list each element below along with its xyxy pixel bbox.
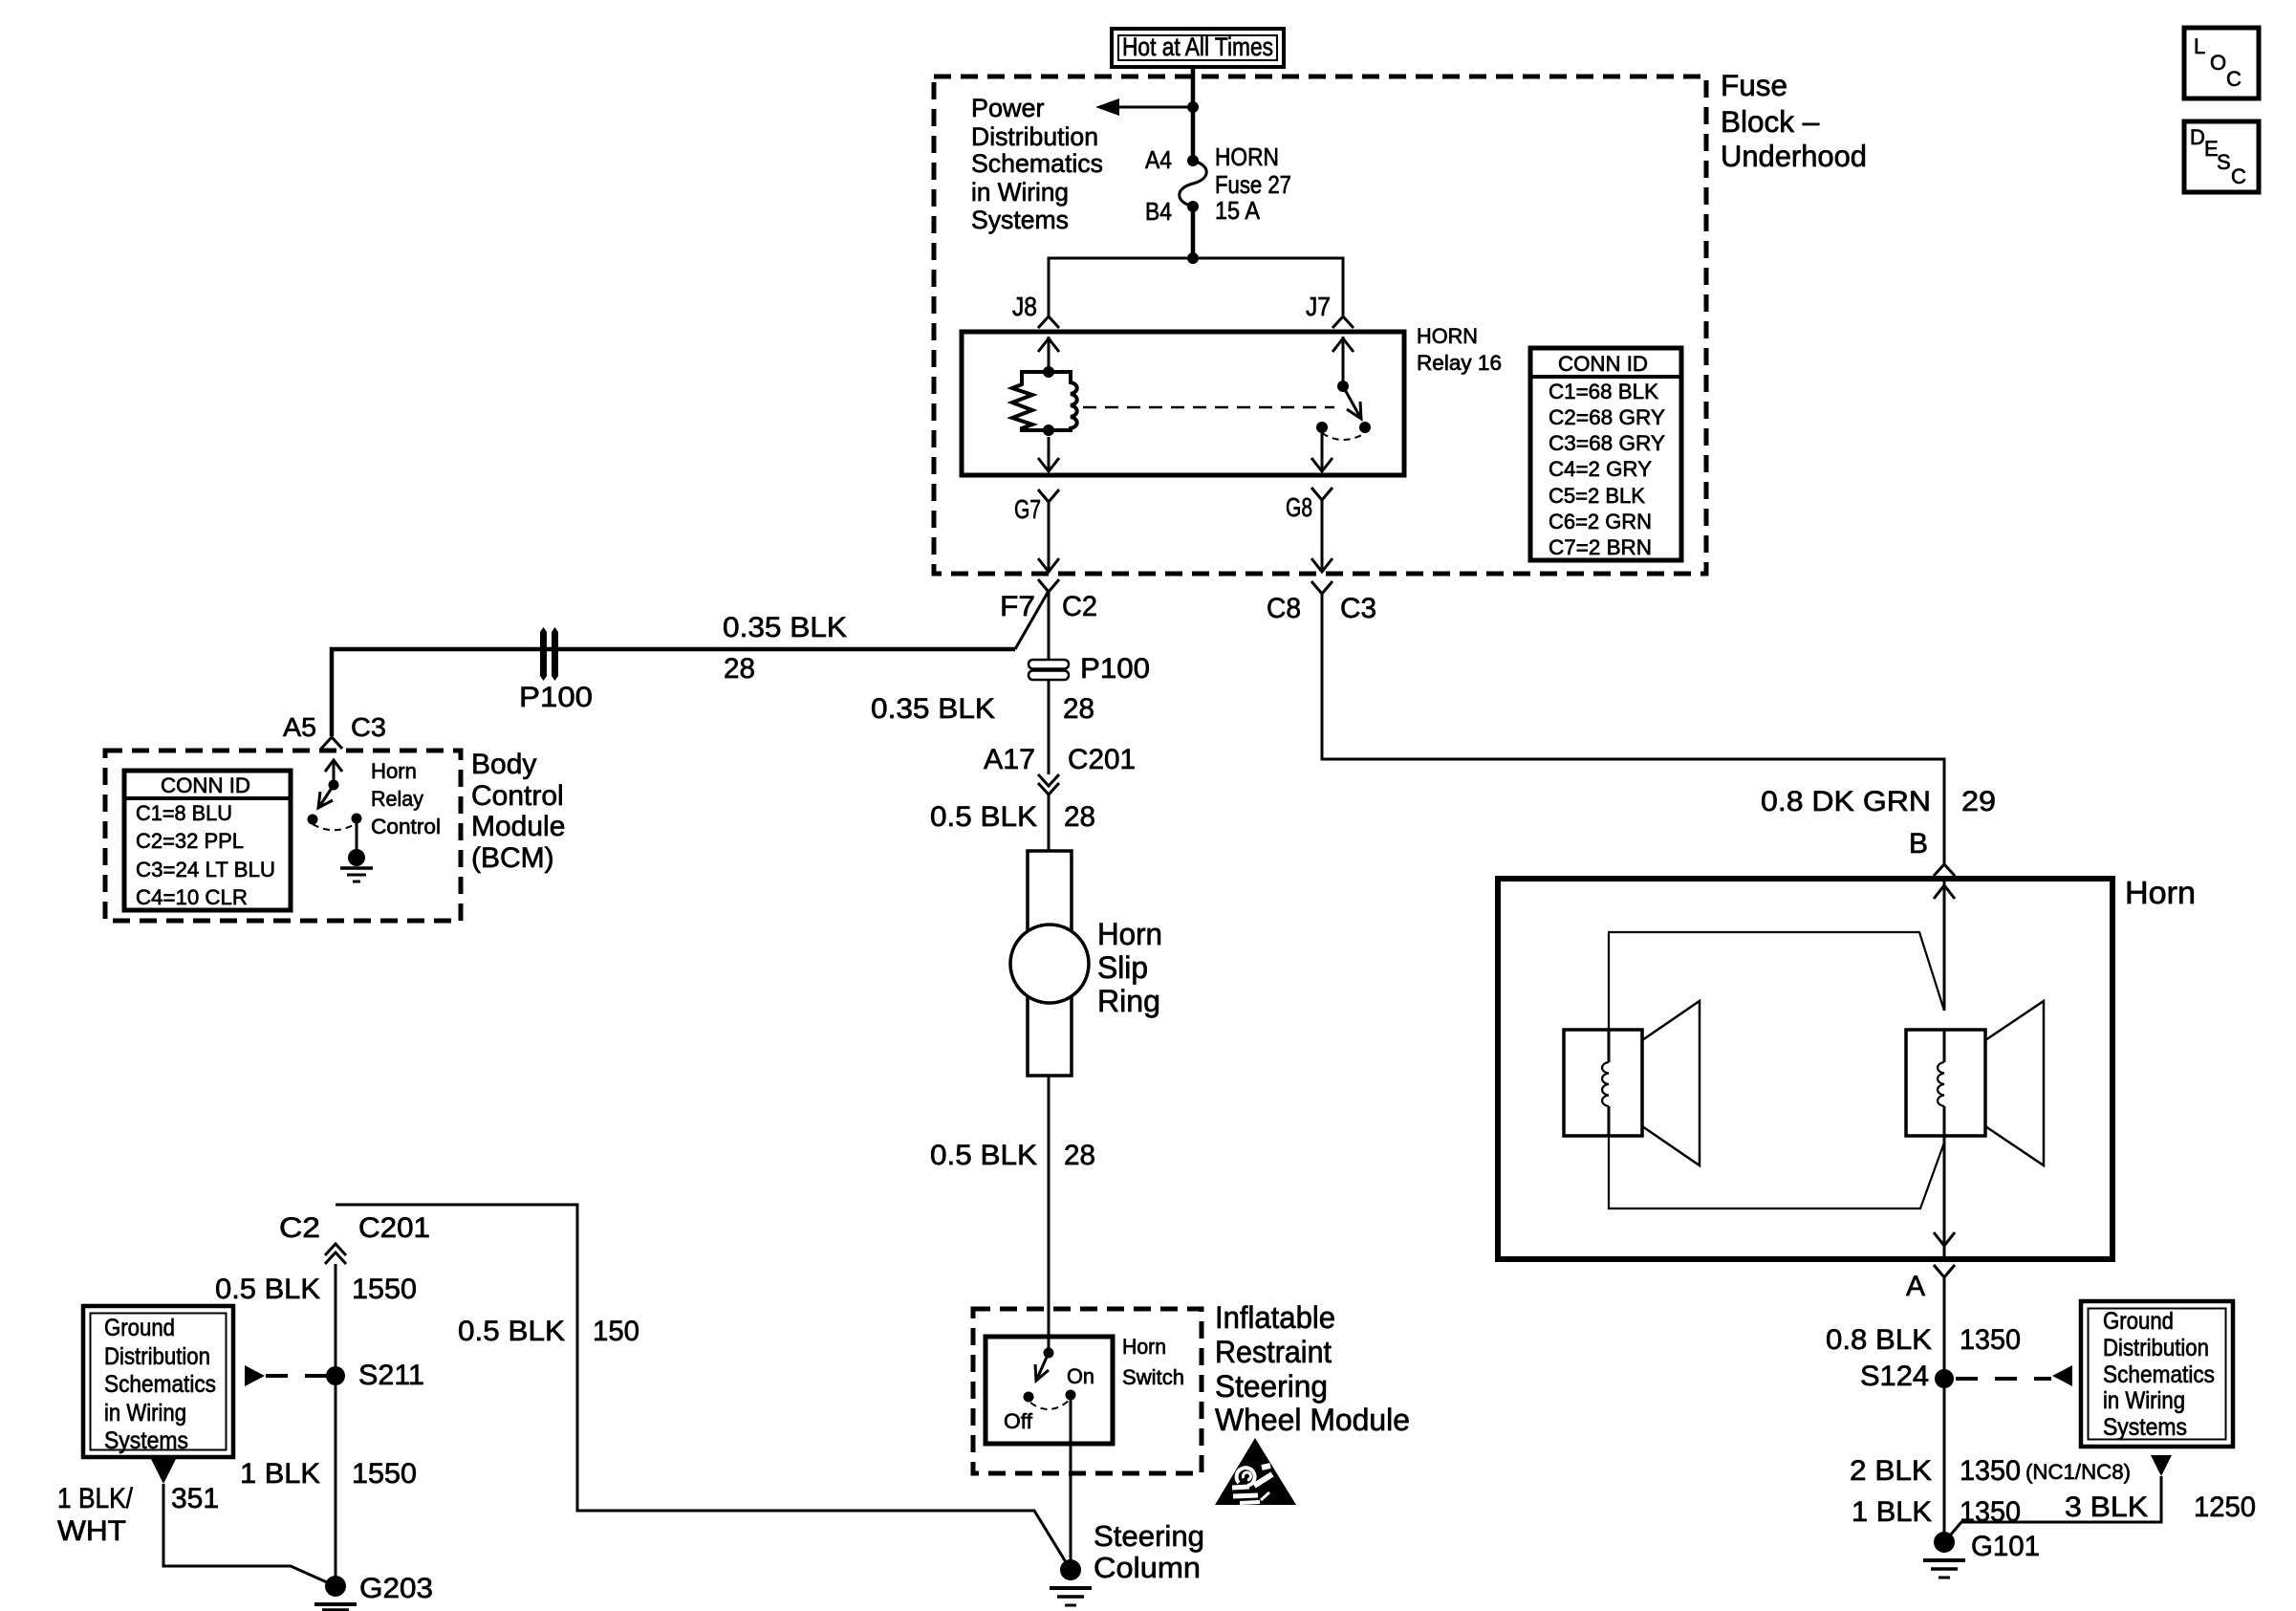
- connector chevrons C2/C201 bottom: [325, 1244, 346, 1264]
- svg-text:C201: C201: [358, 1212, 430, 1244]
- wire C201 to slip ring: [1048, 795, 1051, 851]
- svg-text:Module: Module: [471, 811, 565, 842]
- svg-text:Ground: Ground: [104, 1315, 175, 1341]
- wire 1 BLK/WHT 351 from ground distribution to G203: [150, 1457, 336, 1586]
- dashed reference arrow to S211: [245, 1365, 329, 1386]
- svg-text:Horn: Horn: [371, 759, 417, 783]
- svg-text:HORN: HORN: [1215, 142, 1279, 171]
- svg-text:C3=24 LT BLU: C3=24 LT BLU: [136, 858, 275, 882]
- svg-text:0.5 BLK: 0.5 BLK: [930, 1140, 1037, 1171]
- horn slip ring: [1010, 851, 1089, 1076]
- left horn driver and coil: [1564, 1030, 1642, 1136]
- wire label 0.5 BLK 28 upper: [930, 801, 1095, 833]
- svg-text:Schematics: Schematics: [2103, 1361, 2215, 1388]
- box Ground Distribution Schematics right: [2081, 1301, 2233, 1447]
- box Ground Distribution Schematics left: [83, 1306, 233, 1457]
- relay coil pin J8 arrow: [1038, 337, 1059, 372]
- svg-text:C4=2 GRY: C4=2 GRY: [1549, 457, 1652, 481]
- svg-text:Wheel Module: Wheel Module: [1215, 1403, 1410, 1437]
- label Horn Relay Control: [371, 759, 441, 838]
- ground steering column: [1050, 1559, 1092, 1605]
- svg-text:Horn: Horn: [1097, 917, 1162, 951]
- relay control dashed line: [1083, 406, 1334, 409]
- connector chevron C8/C3: [1311, 581, 1332, 594]
- svg-text:1 BLK: 1 BLK: [1852, 1496, 1932, 1528]
- svg-text:Steering: Steering: [1215, 1369, 1328, 1404]
- svg-text:Power: Power: [971, 94, 1045, 122]
- svg-text:Steering: Steering: [1094, 1519, 1204, 1553]
- svg-text:A4: A4: [1145, 145, 1172, 174]
- wire label 0.5 BLK 28 lower: [930, 1140, 1095, 1171]
- svg-text:Slip: Slip: [1097, 950, 1148, 985]
- svg-text:0.5 BLK: 0.5 BLK: [215, 1274, 320, 1305]
- label Horn Switch: [1122, 1335, 1184, 1389]
- svg-text:(NC1/NC8): (NC1/NC8): [2025, 1460, 2131, 1484]
- svg-text:Distribution: Distribution: [104, 1343, 210, 1370]
- wire BCM horizontal run: [332, 649, 1015, 736]
- wire label 0.35 BLK 28 center: [871, 693, 1094, 725]
- table CONN ID fuse block: [1530, 348, 1681, 560]
- svg-text:Control: Control: [471, 780, 564, 812]
- relay K1 HORN Relay 16 box: [962, 332, 1404, 475]
- wire label 1 BLK 1350: [1852, 1496, 2021, 1528]
- svg-text:J8: J8: [1012, 292, 1037, 321]
- svg-text:Horn: Horn: [2125, 875, 2196, 910]
- svg-text:1 BLK: 1 BLK: [240, 1458, 320, 1490]
- wire branch to power distribution schematics: [1095, 98, 1199, 116]
- connector chevron A5/C3: [321, 737, 342, 749]
- horn feed arrow: [1934, 882, 1955, 1011]
- splice S124: [1860, 1361, 1954, 1392]
- svg-text:S211: S211: [358, 1360, 424, 1391]
- connector P100 inline left: [540, 627, 558, 681]
- connector chevron F7/C2: [1038, 579, 1059, 592]
- svg-text:28: 28: [1064, 801, 1095, 833]
- svg-text:B4: B4: [1145, 197, 1172, 226]
- svg-text:Control: Control: [371, 815, 441, 838]
- svg-text:0.35 BLK: 0.35 BLK: [871, 693, 995, 725]
- svg-text:Inflatable: Inflatable: [1215, 1300, 1335, 1335]
- table CONN ID BCM: [124, 771, 291, 910]
- svg-text:Systems: Systems: [971, 206, 1069, 234]
- right horn bell: [1985, 1001, 2044, 1165]
- svg-text:150: 150: [593, 1316, 639, 1347]
- svg-text:1350: 1350: [1960, 1455, 2021, 1487]
- label Steering Column: [1094, 1519, 1204, 1584]
- wire slip ring to horn switch: [1048, 1076, 1051, 1353]
- svg-text:in Wiring: in Wiring: [2103, 1387, 2185, 1414]
- svg-text:C2=32 PPL: C2=32 PPL: [136, 829, 244, 853]
- svg-text:Underhood: Underhood: [1721, 139, 1867, 173]
- wire label 2 BLK 1350 NC1/NC8: [1850, 1455, 2131, 1487]
- svg-text:1550: 1550: [352, 1458, 417, 1490]
- DESC reference box: [2184, 121, 2259, 192]
- svg-text:C3: C3: [351, 712, 386, 742]
- svg-text:C2=68 GRY: C2=68 GRY: [1549, 405, 1665, 429]
- label Body Control Module (BCM): [471, 749, 565, 874]
- svg-text:L: L: [2194, 34, 2205, 58]
- svg-text:Horn: Horn: [1122, 1335, 1166, 1359]
- svg-text:Distribution: Distribution: [2103, 1335, 2209, 1361]
- svg-text:Block –: Block –: [1721, 104, 1820, 139]
- label Inflatable Restraint Steering Wheel Module: [1215, 1300, 1410, 1437]
- svg-text:Body: Body: [471, 749, 536, 780]
- svg-text:Restraint: Restraint: [1215, 1335, 1332, 1369]
- wire label 1 BLK 1550: [240, 1458, 417, 1490]
- svg-text:Schematics: Schematics: [104, 1371, 216, 1398]
- svg-text:C2: C2: [1062, 591, 1097, 622]
- svg-text:A5: A5: [283, 712, 316, 742]
- svg-text:Ground: Ground: [2103, 1308, 2174, 1335]
- wire horn switch to steering column: [1070, 1395, 1072, 1570]
- svg-text:J7: J7: [1306, 292, 1331, 321]
- connector chevron G8: [1311, 488, 1332, 500]
- relay output G7 arrow: [1038, 437, 1059, 471]
- wire P100 to C201: [1048, 680, 1051, 774]
- BCM horn relay control driver: [308, 760, 362, 849]
- wire 0.5 BLK 150 run to steering column: [336, 1205, 1071, 1570]
- wire label 0.8 BLK 1350: [1826, 1324, 2021, 1356]
- svg-text:1250: 1250: [2194, 1491, 2256, 1523]
- svg-text:1350: 1350: [1960, 1324, 2021, 1356]
- wire C8 to horn B terminal: [1322, 594, 1944, 863]
- ground G203: [314, 1573, 433, 1610]
- svg-text:O: O: [2210, 51, 2226, 75]
- label Power Distribution Schematics in Wiring Systems: [971, 94, 1103, 234]
- svg-text:C4=10 CLR: C4=10 CLR: [136, 885, 248, 909]
- svg-text:Hot at All Times: Hot at All Times: [1122, 33, 1273, 61]
- relay switch pin J7 arrow: [1332, 337, 1354, 386]
- svg-text:C7=2 BRN: C7=2 BRN: [1549, 535, 1652, 559]
- wire label 0.35 BLK 28 horizontal: [723, 612, 847, 685]
- connector chevrons A17/C201: [1038, 774, 1059, 795]
- svg-text:Relay: Relay: [371, 787, 423, 811]
- svg-text:2 BLK: 2 BLK: [1850, 1455, 1932, 1487]
- right horn driver and coil: [1906, 1030, 1985, 1136]
- svg-text:C1=68 BLK: C1=68 BLK: [1549, 380, 1658, 403]
- svg-text:Off: Off: [1004, 1409, 1033, 1433]
- svg-text:C: C: [2226, 67, 2242, 91]
- connector chevron J7: [1332, 316, 1354, 328]
- svg-text:Systems: Systems: [104, 1427, 188, 1454]
- svg-text:G7: G7: [1014, 494, 1041, 524]
- svg-text:0.8 DK GRN: 0.8 DK GRN: [1761, 786, 1931, 817]
- svg-text:C3=68 GRY: C3=68 GRY: [1549, 431, 1665, 455]
- svg-text:A17: A17: [984, 744, 1035, 775]
- svg-text:C2: C2: [279, 1212, 320, 1244]
- wire BCM to F7 diagonal: [1015, 591, 1049, 649]
- wire horn to G101: [1943, 1277, 1946, 1542]
- wire label 0.8 DK GRN 29: [1761, 786, 1996, 817]
- wire label 0.5 BLK 150: [458, 1316, 639, 1347]
- svg-text:Column: Column: [1094, 1551, 1201, 1584]
- svg-text:G203: G203: [359, 1573, 433, 1604]
- connector chevron A: [1934, 1265, 1955, 1277]
- svg-text:P100: P100: [1080, 653, 1150, 685]
- svg-text:in Wiring: in Wiring: [971, 178, 1069, 207]
- value label HORN Fuse 27 15 A: [1215, 142, 1291, 225]
- svg-text:in Wiring: in Wiring: [104, 1400, 186, 1426]
- svg-text:28: 28: [1064, 1140, 1095, 1171]
- horn ground arrow: [1934, 1136, 1955, 1256]
- svg-text:351: 351: [171, 1483, 219, 1514]
- svg-text:S: S: [2217, 150, 2231, 174]
- svg-text:A: A: [1906, 1271, 1925, 1302]
- svg-text:On: On: [1067, 1364, 1094, 1388]
- svg-text:F7: F7: [1000, 591, 1035, 622]
- svg-text:0.35 BLK: 0.35 BLK: [723, 612, 847, 643]
- relay output G8 arrow: [1311, 433, 1332, 471]
- svg-text:D: D: [2190, 125, 2205, 149]
- label Fuse Block - Underhood: [1721, 68, 1867, 173]
- wire Hot at All Times to fuse: [1191, 67, 1196, 161]
- svg-text:C1=8 BLU: C1=8 BLU: [136, 801, 232, 825]
- horn switch box: [986, 1337, 1113, 1444]
- svg-text:WHT: WHT: [57, 1515, 126, 1547]
- svg-text:B: B: [1909, 828, 1928, 860]
- wire distribution to relay pins J8 and J7: [1049, 258, 1343, 316]
- svg-text:0.5 BLK: 0.5 BLK: [930, 801, 1037, 833]
- svg-text:Distribution: Distribution: [971, 122, 1098, 151]
- svg-text:Fuse 27: Fuse 27: [1215, 170, 1291, 199]
- wire C201 to G203: [335, 1264, 337, 1586]
- airbag warning symbol: [1215, 1438, 1296, 1505]
- svg-text:Ring: Ring: [1097, 984, 1160, 1018]
- svg-text:0.8 BLK: 0.8 BLK: [1826, 1324, 1932, 1356]
- svg-text:HORN: HORN: [1417, 324, 1478, 348]
- svg-text:Relay 16: Relay 16: [1417, 351, 1502, 375]
- svg-text:C8: C8: [1267, 593, 1301, 624]
- dashed reference arrow to ground distribution right: [1956, 1365, 2072, 1386]
- svg-text:(BCM): (BCM): [471, 842, 554, 874]
- node Hot at All Times: [1112, 29, 1284, 67]
- ground G101: [1923, 1531, 2040, 1578]
- svg-text:3 BLK: 3 BLK: [2065, 1491, 2148, 1523]
- svg-text:G8: G8: [1286, 492, 1312, 522]
- connector chevron G7: [1038, 490, 1059, 502]
- svg-text:29: 29: [1961, 786, 1996, 817]
- horn switch SW: [1024, 1348, 1076, 1410]
- svg-text:Switch: Switch: [1122, 1365, 1184, 1389]
- wire label 3 BLK 1250: [2065, 1491, 2256, 1523]
- fuse HORN Fuse 27 15 A: [1180, 155, 1207, 212]
- relay switch blade: [1316, 381, 1371, 440]
- svg-text:1 BLK/: 1 BLK/: [57, 1483, 134, 1514]
- wire G7 to fuse block edge with arrow: [1038, 502, 1059, 572]
- svg-text:CONN ID: CONN ID: [161, 773, 250, 797]
- connector chevron B: [1934, 864, 1955, 876]
- svg-text:Systems: Systems: [2103, 1414, 2187, 1441]
- wire label 0.5 BLK 1550: [215, 1274, 417, 1305]
- wire 3 BLK 1250 from ground distribution to G101: [1944, 1455, 2172, 1542]
- svg-text:Fuse: Fuse: [1721, 68, 1787, 102]
- wire label 1 BLK/WHT 351: [57, 1483, 219, 1547]
- svg-text:0.5 BLK: 0.5 BLK: [458, 1316, 565, 1347]
- svg-text:C3: C3: [1340, 593, 1376, 624]
- connector chevron J8: [1038, 316, 1059, 328]
- relay coil with parallel resistor: [1012, 366, 1077, 436]
- svg-text:G101: G101: [1971, 1531, 2040, 1562]
- svg-text:C: C: [2231, 164, 2246, 188]
- svg-text:CONN ID: CONN ID: [1558, 352, 1648, 376]
- wire G8 to fuse block edge with arrow: [1311, 500, 1332, 572]
- BCM dashed box: [105, 751, 461, 921]
- horn internal parallel wiring: [1609, 932, 1944, 1208]
- label HORN Relay 16: [1417, 324, 1502, 375]
- svg-text:S124: S124: [1860, 1361, 1929, 1392]
- label Horn Slip Ring: [1097, 917, 1162, 1018]
- splice S211: [326, 1360, 424, 1391]
- svg-text:C201: C201: [1068, 744, 1136, 775]
- fuse block underhood dashed box: [934, 76, 1706, 574]
- wire fuse to distribution junction: [1191, 207, 1196, 258]
- inflatable restraint module dashed box: [973, 1309, 1202, 1473]
- LOC reference box: [2184, 28, 2259, 98]
- svg-text:28: 28: [724, 653, 755, 685]
- svg-text:Schematics: Schematics: [971, 149, 1103, 178]
- horn assembly box: [1498, 879, 2112, 1259]
- svg-text:C5=2 BLK: C5=2 BLK: [1549, 484, 1645, 508]
- svg-text:15 A: 15 A: [1215, 196, 1261, 225]
- svg-text:C6=2 GRN: C6=2 GRN: [1549, 510, 1652, 533]
- node distribution junction: [1187, 252, 1199, 264]
- svg-text:P100: P100: [519, 682, 593, 713]
- svg-text:1550: 1550: [352, 1274, 417, 1305]
- connector P100 inline center: [1029, 660, 1069, 680]
- ground symbol inside BCM: [340, 849, 373, 882]
- svg-text:28: 28: [1063, 693, 1094, 725]
- wire F7 to P100 center: [1048, 592, 1051, 660]
- left horn bell: [1642, 1001, 1700, 1165]
